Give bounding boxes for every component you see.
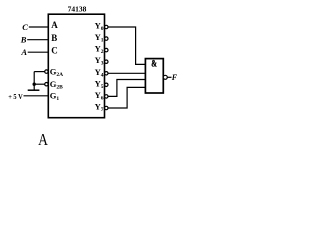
bubble Y3: [105, 60, 108, 63]
wire A to pin C: [28, 51, 49, 53]
svg-text:Y6: Y6: [95, 90, 104, 102]
svg-text:Y5: Y5: [95, 78, 104, 90]
svg-text:Y1: Y1: [95, 32, 104, 44]
wire Y4 to gate input 2: [108, 72, 145, 74]
svg-text:A: A: [51, 20, 58, 30]
wire Y7 to gate input 4: [108, 87, 145, 108]
svg-text:+ 5 V: + 5 V: [8, 93, 23, 101]
svg-text:A: A: [20, 47, 27, 57]
wire to G2A bubble: [34, 71, 45, 73]
bubble Y1: [105, 37, 108, 40]
svg-text:Y3: Y3: [95, 55, 104, 66]
svg-text:Y0: Y0: [95, 21, 104, 33]
svg-text:&: &: [151, 59, 157, 69]
wire B to pin B: [27, 39, 48, 41]
wire to G2B bubble: [34, 83, 45, 85]
svg-text:B: B: [20, 35, 27, 45]
wire Y0 to gate input 1: [108, 27, 145, 64]
svg-text:G2B: G2B: [50, 79, 63, 91]
svg-text:Y2: Y2: [95, 44, 104, 56]
bubble Y2: [105, 48, 108, 51]
bubble Y4: [105, 72, 108, 75]
svg-text:C: C: [51, 46, 58, 56]
svg-text:Y7: Y7: [95, 102, 104, 114]
svg-text:B: B: [51, 33, 57, 43]
bubble Y0: [105, 25, 108, 28]
ground: [28, 89, 40, 91]
bubble Y6: [105, 95, 108, 98]
svg-text:Y4: Y4: [95, 67, 104, 79]
junction dot: [33, 83, 36, 86]
svg-text:74138: 74138: [68, 4, 87, 13]
NAND gate U2 body: [145, 59, 163, 93]
svg-text:C: C: [22, 22, 28, 32]
svg-text:F: F: [171, 73, 178, 82]
bubble Y5: [105, 83, 108, 86]
bubble Y7: [105, 106, 108, 109]
bubble G2A: [45, 70, 48, 73]
wire G2A-G2B vertical: [33, 72, 35, 90]
wire C to pin A: [29, 26, 49, 28]
wire Y6 to gate input 3: [108, 80, 145, 97]
bubble G2B: [45, 83, 48, 86]
IC U1 74138 body: [48, 14, 104, 118]
wire +5V to G1: [24, 95, 49, 97]
svg-text:A: A: [38, 131, 48, 150]
svg-text:G2A: G2A: [50, 66, 63, 78]
gate output bubble: [163, 75, 167, 79]
svg-text:G1: G1: [50, 91, 60, 103]
wire gate output to F: [167, 76, 171, 78]
